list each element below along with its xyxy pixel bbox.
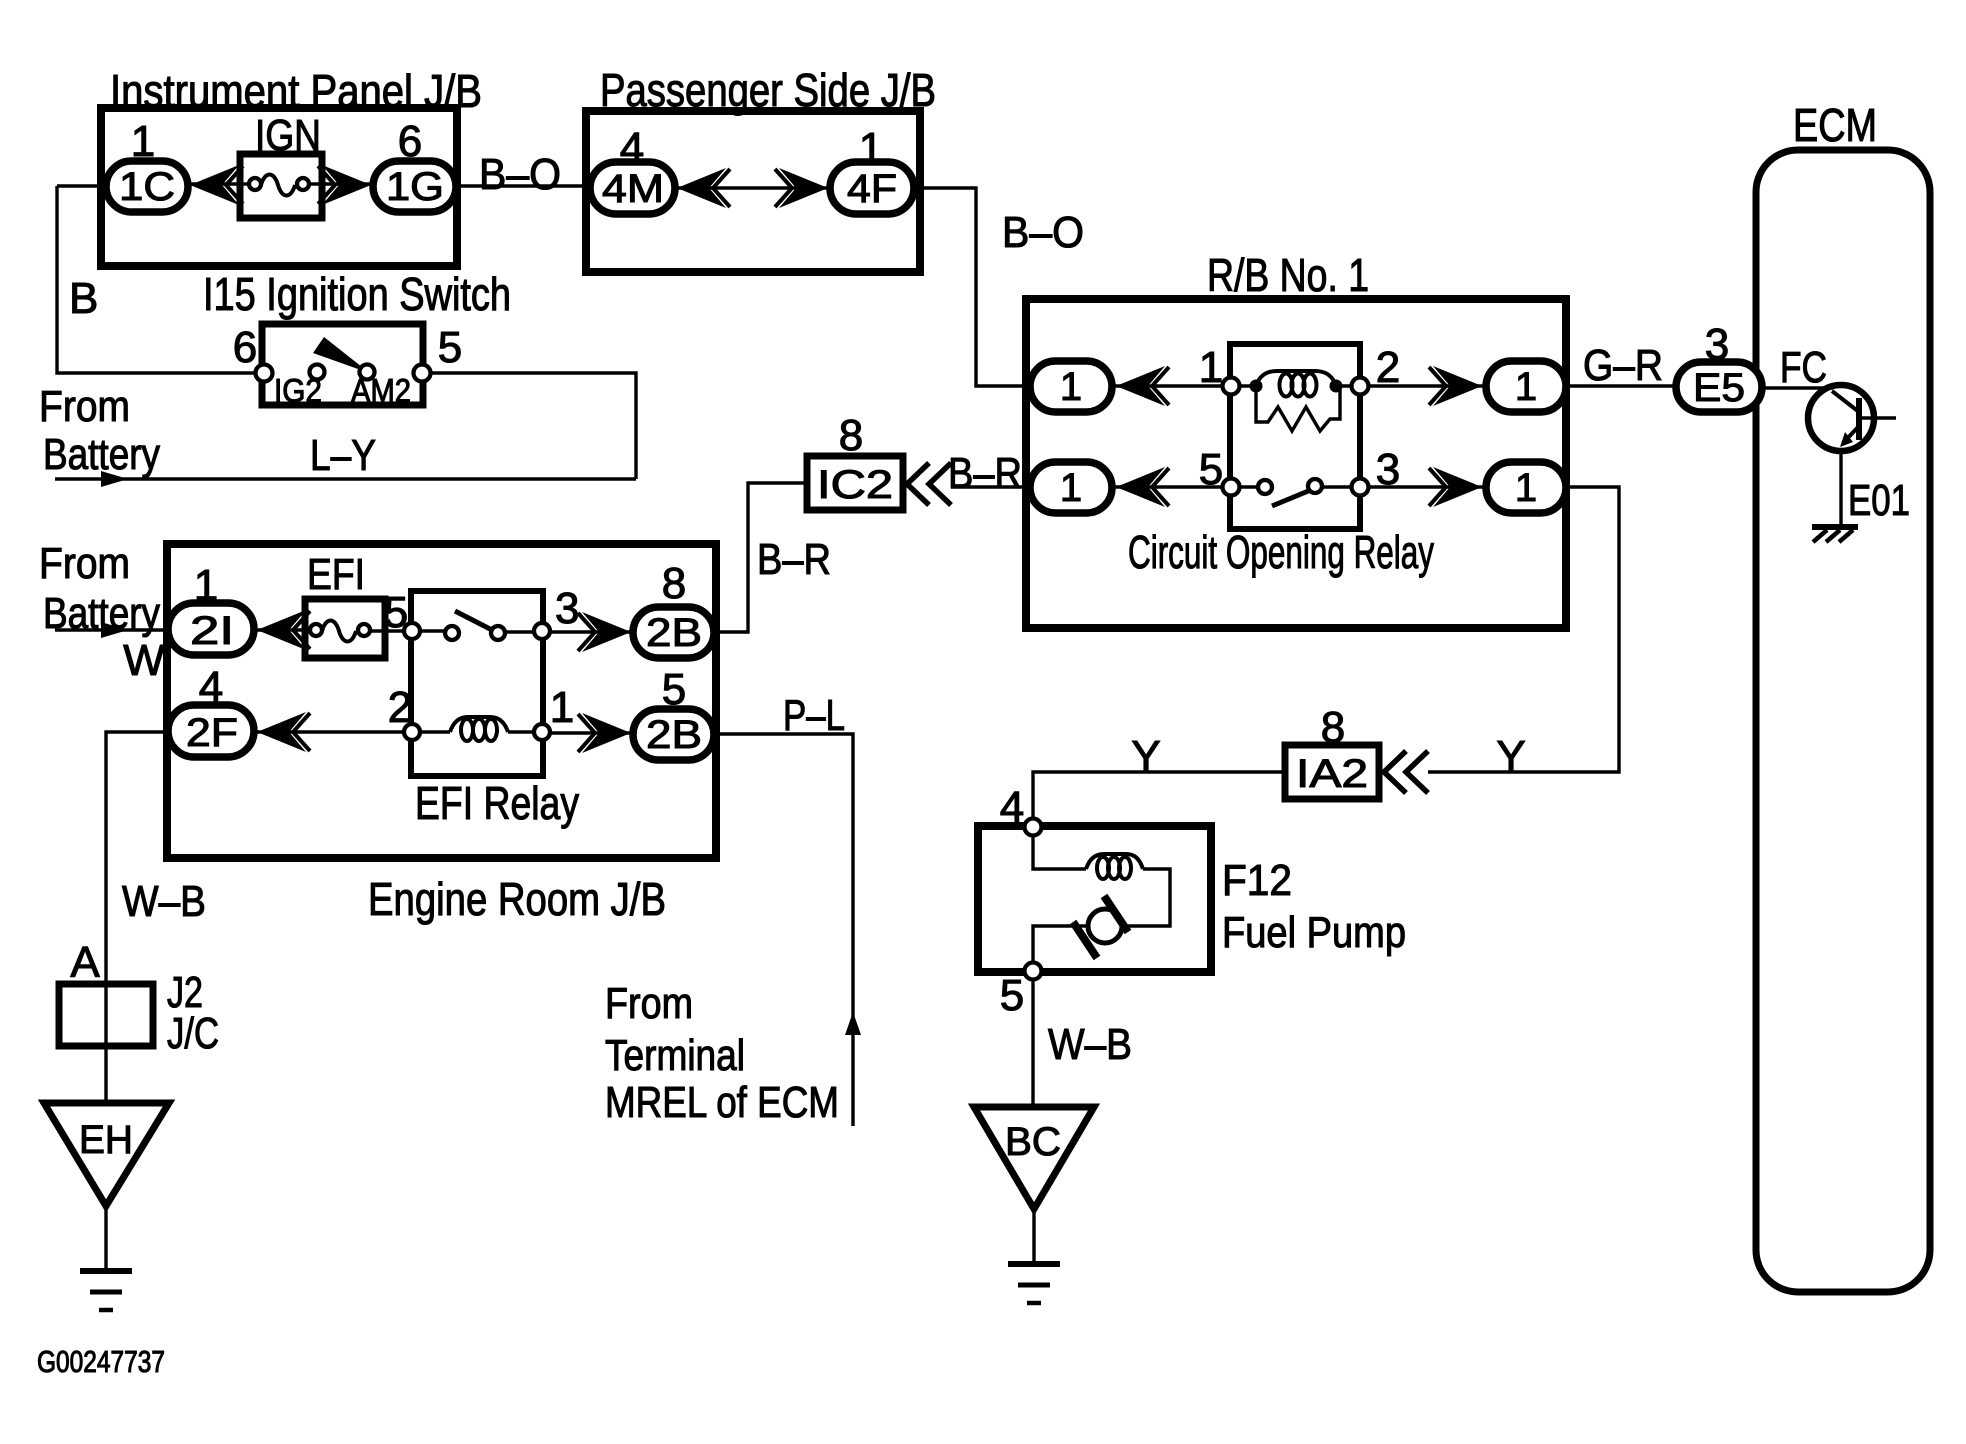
arrow into 2I: [257, 610, 310, 650]
relay pin 1: [1199, 343, 1240, 395]
earth ground below EH: [80, 1271, 132, 1310]
arrow into 1 top-right: [1429, 366, 1482, 406]
switch I15 Ignition Switch: [203, 268, 511, 409]
svg-text:1: 1: [1515, 466, 1537, 510]
wire Y from IA2 to fuel pump pin 4: [1033, 732, 1285, 819]
contact AM2: [360, 365, 375, 380]
svg-text:L–Y: L–Y: [310, 431, 376, 480]
connector 2B pin 8: [633, 559, 714, 658]
connector 2B pin 5: [633, 665, 714, 760]
arrow into 1 bottom-right: [1429, 467, 1482, 507]
figure number: [37, 1344, 165, 1379]
wire W-B from pump to BC ground: [1033, 980, 1132, 1107]
wire 2I to EFI fuse: [254, 628, 305, 631]
fuel pump motor: [1033, 896, 1128, 963]
connector 1 top-left: [1030, 361, 1112, 412]
svg-text:2I: 2I: [190, 609, 234, 653]
svg-text:1: 1: [1060, 466, 1082, 510]
svg-text:F12: F12: [1222, 856, 1292, 905]
wire B-R from 2B pin 8 up to IC2: [714, 483, 831, 632]
svg-text:G00247737: G00247737: [37, 1344, 165, 1379]
relay pin 5: [1199, 445, 1240, 496]
arrow into 4F: [775, 168, 828, 208]
svg-text:E01: E01: [1848, 476, 1910, 525]
earth ground below BC: [1008, 1264, 1060, 1303]
wire from node B to connector 1C: [57, 184, 106, 187]
relay switch contact left: [445, 626, 459, 640]
svg-text:B–O: B–O: [1002, 208, 1084, 257]
svg-text:8: 8: [662, 559, 686, 608]
arrow into 2B pin 8: [578, 612, 631, 652]
relay pin 3: [534, 623, 550, 639]
svg-text:6: 6: [233, 323, 257, 372]
wire B-R from R/B to IC2: [948, 449, 1030, 498]
svg-text:Y: Y: [1496, 732, 1525, 781]
svg-text:W–B: W–B: [122, 877, 206, 926]
connector 1 bottom-right: [1486, 462, 1566, 513]
svg-text:2: 2: [388, 683, 412, 732]
svg-text:P–L: P–L: [783, 691, 845, 740]
svg-text:4F: 4F: [847, 167, 897, 211]
note From Terminal MREL of ECM: [605, 979, 839, 1127]
wire to relay pin 5: [1112, 485, 1231, 488]
relay switch contact right: [491, 626, 505, 640]
transistor FC output: [1808, 385, 1896, 451]
connector 1 top-right: [1486, 361, 1566, 412]
svg-text:4M: 4M: [602, 167, 664, 211]
relay block R/B No. 1: [1026, 249, 1566, 628]
junction block Passenger Side J/B: [586, 64, 936, 272]
circuit opening relay box: [1230, 344, 1360, 529]
relay pin 2: [388, 683, 420, 740]
wire from pin 5 to battery feed L-Y: [431, 373, 636, 479]
svg-text:3: 3: [555, 584, 579, 633]
svg-text:From: From: [39, 382, 130, 431]
arrow double chevron into IC2: [907, 463, 951, 505]
wire transistor emitter to E01 ground: [1841, 451, 1910, 526]
arrow into 1G: [318, 165, 371, 205]
svg-text:2F: 2F: [186, 711, 238, 755]
relay switch contact right: [1308, 479, 1322, 493]
wire contacts row: [420, 631, 534, 632]
wire relay pin 2 to connector: [1368, 384, 1486, 387]
wire 1C to IGN fuse: [188, 182, 242, 185]
relay pin 3: [1352, 445, 1401, 496]
wire switch row: [1239, 485, 1352, 488]
svg-text:B–O: B–O: [479, 150, 561, 199]
connector 1 bottom-left: [1030, 462, 1112, 513]
svg-text:W: W: [123, 636, 165, 685]
wire Y from R/B down to IA2: [1428, 487, 1619, 781]
contact IG2: [310, 365, 325, 380]
pin 5 terminal: [414, 365, 431, 382]
wire B from 1C to ignition switch pin 6: [57, 186, 256, 373]
fuel pump pin 4: [1000, 783, 1042, 836]
svg-text:G–R: G–R: [1583, 341, 1663, 390]
connector 2F pin 4: [168, 663, 254, 757]
relay switch contact left: [1258, 480, 1272, 494]
relay coil: [420, 717, 534, 741]
node junction left: [1250, 380, 1263, 393]
wire relay pin 3 to connector: [1368, 485, 1486, 488]
arrow into 1 top-left: [1116, 366, 1169, 406]
svg-text:FC: FC: [1780, 343, 1827, 392]
svg-text:W–B: W–B: [1048, 1020, 1132, 1069]
svg-text:1: 1: [1515, 365, 1537, 409]
junction connector J2 J/C: [59, 938, 219, 1103]
connector IC2 pin 8: [807, 411, 903, 510]
node junction right: [1330, 380, 1343, 393]
wire W-B from 2F to J2: [106, 732, 206, 984]
arrow into 2B pin 5: [578, 713, 631, 753]
wire B-O from 4F down to R/B No.1: [914, 188, 1084, 386]
relay coil: [1239, 371, 1352, 397]
svg-text:EFI Relay: EFI Relay: [415, 777, 579, 829]
svg-text:IA2: IA2: [1296, 752, 1368, 796]
fuel pump F12: [978, 826, 1406, 972]
svg-text:R/B No. 1: R/B No. 1: [1207, 249, 1369, 301]
svg-text:1G: 1G: [386, 165, 444, 209]
ECM: [1756, 99, 1930, 1292]
ground triangle BC: [974, 1107, 1094, 1264]
fuel pump coil: [1033, 836, 1170, 926]
pin 6 terminal: [256, 365, 273, 382]
relay switch lever: [455, 611, 492, 630]
connector 1G pin 6: [373, 117, 456, 212]
svg-text:MREL of ECM: MREL of ECM: [605, 1078, 839, 1127]
svg-text:Y: Y: [1131, 732, 1160, 781]
wire to relay pin 1: [1112, 384, 1231, 387]
svg-text:E5: E5: [1693, 366, 1745, 410]
svg-text:1: 1: [1199, 343, 1223, 392]
junction block Instrument Panel J/B: [101, 65, 482, 266]
svg-text:BC: BC: [1005, 1120, 1061, 1164]
svg-text:5: 5: [1000, 971, 1024, 1020]
arrow into 2F: [257, 712, 310, 752]
svg-text:ECM: ECM: [1793, 99, 1877, 151]
svg-text:Terminal: Terminal: [605, 1031, 745, 1080]
svg-text:Engine Room J/B: Engine Room J/B: [368, 873, 666, 925]
connector 4F pin 1: [830, 124, 914, 214]
wire relay pin 3 to 2B pin 8: [550, 584, 633, 633]
wire IGN fuse to 1G: [322, 182, 373, 185]
svg-text:IC2: IC2: [817, 463, 893, 507]
ground triangle EH: [44, 1103, 169, 1271]
fuel pump pin 5: [1000, 963, 1042, 1021]
relay resistor parallel: [1256, 386, 1340, 431]
svg-text:2B: 2B: [646, 713, 702, 757]
svg-text:B–R: B–R: [948, 449, 1022, 498]
svg-text:I15 Ignition Switch: I15 Ignition Switch: [203, 268, 511, 320]
svg-text:EH: EH: [79, 1118, 133, 1162]
arrow into 1 bottom-left: [1116, 467, 1169, 507]
svg-text:1: 1: [1060, 365, 1082, 409]
svg-text:1: 1: [550, 683, 574, 732]
connector 2I pin 1: [168, 561, 254, 655]
svg-text:4: 4: [1000, 783, 1024, 832]
connector E5 pin 3: [1676, 320, 1762, 412]
svg-text:1C: 1C: [119, 165, 175, 209]
svg-text:5: 5: [438, 323, 462, 372]
relay pin 5: [404, 623, 420, 639]
relay switch lever: [1272, 487, 1318, 506]
svg-text:From: From: [605, 979, 693, 1028]
battery feed From Battery W: [39, 539, 168, 685]
wire EFI fuse to relay pin 5: [384, 588, 412, 637]
wire relay pin 1 to 2B pin 5: [550, 731, 633, 734]
wire 4M to 4F: [675, 186, 830, 189]
fuse IGN: [240, 111, 322, 218]
relay EFI Relay: [411, 591, 579, 829]
fuse EFI: [305, 550, 385, 658]
wire G-R from R/B to E5: [1566, 341, 1676, 390]
svg-text:J/C: J/C: [167, 1009, 219, 1058]
svg-text:B–R: B–R: [757, 535, 831, 584]
svg-text:From: From: [39, 539, 130, 588]
relay pin 1: [534, 683, 574, 740]
wire 2F to relay pin 2: [254, 730, 412, 733]
wire B-O from 1G to 4M: [457, 150, 586, 199]
ground E01: [1812, 527, 1858, 542]
switch lever: [313, 337, 362, 369]
battery feed From Battery L-Y: [39, 382, 636, 487]
wire FC from E5 to transistor: [1762, 343, 1833, 392]
svg-text:EFI: EFI: [307, 550, 365, 599]
arrow double chevron into IA2: [1384, 751, 1428, 793]
connector 4M pin 4: [590, 124, 675, 214]
svg-text:2B: 2B: [646, 611, 702, 655]
connector IA2 pin 8: [1285, 703, 1379, 799]
connector 1C pin 1: [106, 117, 188, 212]
svg-text:Fuel Pump: Fuel Pump: [1222, 908, 1406, 957]
relay pin 2: [1352, 343, 1401, 395]
svg-text:Circuit Opening Relay: Circuit Opening Relay: [1128, 526, 1434, 578]
wire P-L from 2B pin 5 down (MREL): [714, 691, 861, 1126]
svg-text:A: A: [70, 938, 100, 987]
svg-text:B: B: [69, 274, 98, 323]
svg-text:5: 5: [1199, 445, 1223, 494]
junction block Engine Room J/B: [167, 544, 716, 925]
arrow into 4M: [677, 168, 730, 208]
arrow into 1C: [190, 165, 243, 205]
